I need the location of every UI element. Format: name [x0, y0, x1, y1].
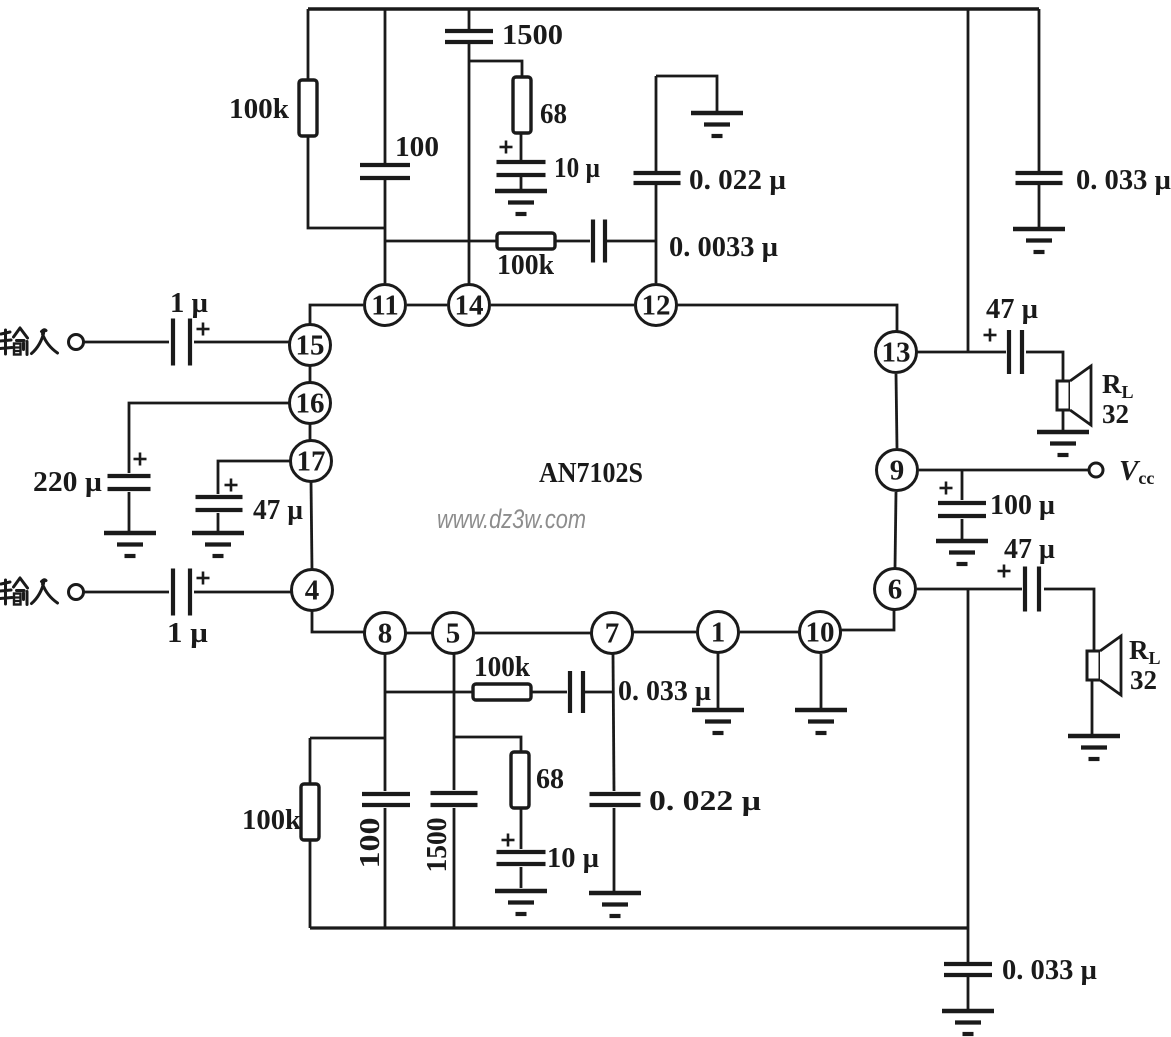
wire output rail down right	[967, 9, 970, 352]
svg-text:100k: 100k	[229, 93, 290, 125]
pin 7	[592, 613, 633, 654]
pin 5	[433, 613, 474, 654]
plus 100u	[940, 482, 953, 495]
plus 10u top	[500, 141, 513, 154]
svg-text:0. 033 µ: 0. 033 µ	[1002, 954, 1097, 986]
label 47u output2	[1004, 533, 1055, 565]
svg-text:AN7102S: AN7102S	[539, 457, 643, 489]
wire 47u cap to speaker1	[1026, 352, 1063, 381]
svg-text:100: 100	[395, 131, 439, 163]
capacitor 10u top electrolytic	[497, 162, 546, 175]
plus 1u input2	[197, 572, 210, 585]
label 68 bottom	[536, 763, 564, 795]
ground 10u top	[495, 191, 547, 214]
svg-text:14: 14	[455, 290, 484, 322]
pin 6	[875, 569, 916, 610]
wire pin5-pin7	[473, 632, 591, 635]
wire left feedback branch	[307, 9, 310, 80]
capacitor 47u left electrolytic	[196, 497, 243, 510]
label 47u left	[253, 494, 303, 526]
wire pin13 to 47u cap	[917, 351, 1006, 354]
label 100 bottom	[354, 818, 386, 869]
label 0.033u top-right	[1076, 164, 1171, 196]
label Vcc	[1119, 455, 1154, 488]
wire speaker2 to ground	[1091, 679, 1094, 734]
wire cap to pin4	[194, 591, 291, 594]
svg-text:10 µ: 10 µ	[554, 152, 600, 184]
wire y737 to 68 resistor	[454, 737, 521, 752]
svg-text:1500: 1500	[502, 19, 563, 51]
resistor 68 bottom	[511, 752, 529, 808]
input terminal 1	[69, 335, 84, 350]
resistor 100k feedback mid	[473, 684, 531, 700]
speaker RL 32 lower	[1087, 636, 1121, 695]
svg-text:10: 10	[806, 617, 835, 649]
capacitor 0.033u bottom	[944, 964, 992, 975]
capacitor 10u bottom electrolytic	[497, 852, 546, 864]
capacitor 0.022u top	[634, 173, 681, 183]
wire right rail lower	[967, 589, 970, 962]
wire 100-cap branch upper	[384, 9, 387, 163]
wire pin7 down	[613, 654, 614, 791]
resistor 100k feedback top	[497, 233, 555, 249]
wire pin8 down upper	[384, 653, 387, 791]
pin 9	[877, 450, 918, 491]
capacitor 100u electrolytic	[938, 503, 986, 516]
wire 100u branch	[961, 470, 964, 500]
label 100k top-left	[229, 93, 290, 125]
svg-text:220 µ: 220 µ	[33, 466, 102, 498]
label RL upper	[1102, 369, 1134, 429]
wire feedback row y241	[385, 240, 590, 243]
svg-text:11: 11	[371, 290, 398, 322]
speaker RL 32 upper	[1057, 366, 1091, 425]
pin 17	[291, 441, 332, 482]
svg-text:16: 16	[296, 388, 325, 420]
wire y692 row b	[531, 691, 567, 694]
svg-text:100k: 100k	[242, 804, 302, 836]
wire pin9-pin6	[895, 492, 896, 568]
svg-text:15: 15	[296, 330, 325, 362]
wire 100u to ground	[961, 519, 964, 539]
svg-text:1 µ: 1 µ	[167, 617, 208, 649]
ground 10u bottom	[495, 891, 547, 914]
capacitor 0.022u bottom	[590, 794, 641, 805]
label 68 top	[540, 98, 567, 130]
wire pin17-pin4	[311, 481, 312, 570]
capacitor 0.0033u	[593, 220, 605, 263]
wire 0.0033 cap to node 12 column	[607, 240, 656, 243]
label 0.022u top	[689, 164, 786, 196]
wire pin1 ground stem	[717, 653, 720, 708]
wire speaker1 to ground	[1062, 409, 1065, 430]
svg-text:4: 4	[305, 575, 320, 607]
label 1500 bottom	[421, 818, 453, 873]
svg-text:0. 033 µ: 0. 033 µ	[618, 675, 711, 707]
wire left 100k branch upper	[309, 738, 312, 784]
wire pin7-pin1	[633, 631, 696, 634]
pin 12	[636, 285, 677, 326]
wire 0.033b to ground	[967, 977, 970, 1009]
wire left 100k branch lower	[309, 840, 312, 928]
svg-text:0. 022 µ: 0. 022 µ	[689, 164, 786, 196]
ground pin10	[795, 710, 847, 733]
Vcc terminal	[1089, 463, 1103, 477]
plus 10u bottom	[502, 834, 515, 847]
svg-text:68: 68	[540, 98, 567, 130]
wire pin15 to pin11	[310, 305, 363, 326]
pin 1	[698, 612, 739, 653]
ground 220u	[104, 533, 156, 556]
capacitor 1500 top	[445, 31, 493, 42]
pin 15	[290, 325, 331, 366]
wire 47u to ground	[217, 513, 220, 531]
plus 1u input1	[197, 323, 210, 336]
wire 68 to 10u cap	[520, 133, 523, 160]
wire pin5 down upper	[453, 653, 456, 790]
resistor 68 top	[513, 77, 531, 133]
svg-text:1 µ: 1 µ	[170, 287, 208, 319]
wire pin11 to pin14	[407, 304, 447, 307]
wire pin16-pin17	[309, 423, 312, 441]
resistor 100k bottom-left	[301, 784, 319, 840]
resistor 100k top-left	[299, 80, 317, 136]
ground top middle	[691, 113, 743, 136]
ground 0.033 top-right	[1013, 229, 1065, 252]
svg-text:68: 68	[536, 763, 564, 795]
plus 47u output2	[998, 565, 1011, 578]
wire pin8-pin5	[405, 632, 433, 635]
wire 0.033 top right branch	[1038, 9, 1041, 171]
pin 14	[449, 285, 490, 326]
wire pin4 to pin8	[312, 610, 364, 632]
svg-text:7: 7	[605, 618, 620, 650]
svg-text:10 µ: 10 µ	[547, 842, 599, 874]
svg-text:100k: 100k	[474, 651, 531, 683]
ground 0.022 bottom	[589, 893, 641, 916]
svg-text:100: 100	[354, 818, 386, 869]
pin 10	[800, 612, 841, 653]
svg-text:12: 12	[642, 290, 671, 322]
label 100k feedback mid	[474, 651, 531, 683]
pin 4	[292, 570, 333, 611]
plus 47u output1	[984, 329, 997, 342]
wire 10u to ground b	[520, 867, 523, 888]
wire pin17 to 47u	[218, 461, 291, 494]
svg-text:47 µ: 47 µ	[253, 494, 303, 526]
capacitor 1u input2	[173, 569, 190, 616]
label 0.033u bottom	[1002, 954, 1097, 986]
pin 8	[365, 613, 406, 654]
svg-text:6: 6	[888, 574, 903, 606]
input label 2	[0, 578, 58, 605]
capacitor 47u output1	[1009, 330, 1022, 374]
ground 47u left	[192, 533, 244, 556]
svg-text:32: 32	[1102, 399, 1129, 429]
label 100 top	[395, 131, 439, 163]
wire pin8 down lower	[384, 808, 387, 928]
ground 0.033 bottom	[942, 1011, 994, 1034]
svg-text:47 µ: 47 µ	[1004, 533, 1055, 565]
label 220u	[33, 466, 102, 498]
label 10u top	[554, 152, 600, 184]
ground pin1	[692, 710, 744, 733]
label 1u input1	[170, 287, 208, 319]
wire y692 row a	[385, 691, 473, 694]
label 100u	[990, 489, 1055, 521]
pin 13	[876, 332, 917, 373]
wire 0.022b to ground	[613, 808, 616, 891]
wire pin16 to 220u	[129, 403, 289, 473]
svg-text:32: 32	[1130, 665, 1157, 695]
pin 11	[365, 285, 406, 326]
wire 10u cap to ground stem	[520, 177, 523, 190]
capacitor 0.033u mid	[570, 671, 583, 713]
wire input1 terminal to cap	[84, 341, 169, 344]
svg-text:1: 1	[711, 617, 726, 649]
svg-text:8: 8	[378, 618, 393, 650]
label 0.022u bottom	[649, 785, 761, 817]
ground speaker1	[1037, 432, 1089, 455]
plus 220u	[134, 453, 147, 466]
capacitor 220u electrolytic	[108, 476, 151, 489]
wire 1500-cap to pin 14	[468, 44, 471, 284]
capacitor 0.033u top-right	[1016, 173, 1063, 183]
wire y738 row	[310, 737, 385, 740]
wire pin15-pin16	[309, 365, 312, 383]
svg-text:47 µ: 47 µ	[986, 293, 1038, 325]
svg-text:13: 13	[882, 337, 911, 369]
watermark	[437, 504, 586, 534]
label 0.033u mid	[618, 675, 711, 707]
wire 68b to 10u	[520, 808, 523, 849]
wire 0.033 top right to ground	[1038, 185, 1041, 227]
wire pin10 ground stem	[820, 654, 823, 708]
ground speaker2	[1068, 736, 1120, 759]
label 1500 top	[502, 19, 563, 51]
wire 12 column mid	[655, 185, 658, 283]
wire y692 row c	[585, 691, 613, 694]
svg-text:17: 17	[297, 446, 326, 478]
wire cap to pin15	[194, 341, 290, 344]
label 100k feedback top	[497, 249, 555, 281]
wire top rail	[308, 7, 1039, 10]
input label 1	[0, 328, 58, 355]
label 10u bottom	[547, 842, 599, 874]
wire pin6 to 47u cap	[917, 588, 1022, 591]
svg-text:9: 9	[890, 455, 905, 487]
wire 12 column upper to ground corner	[655, 76, 658, 171]
label 47u output1	[986, 293, 1038, 325]
wire 220u to ground	[128, 492, 131, 531]
wire branch to 68 resistor	[469, 61, 522, 77]
label 0.0033u	[669, 231, 778, 263]
capacitor 100 top	[360, 165, 410, 178]
svg-text:100 µ: 100 µ	[990, 489, 1055, 521]
label 100k bottom-left	[242, 804, 302, 836]
wire 47u cap to speaker2	[1044, 589, 1094, 651]
capacitor 47u output2	[1025, 567, 1039, 612]
capacitor 1u input1	[173, 319, 190, 366]
svg-text:1500: 1500	[421, 818, 453, 873]
ground 100u	[936, 541, 988, 564]
plus 47u left	[225, 479, 238, 492]
wire pin5 down lower	[453, 808, 456, 928]
IC name AN7102S	[539, 457, 643, 489]
svg-text:100k: 100k	[497, 249, 555, 281]
capacitor 100 bottom	[362, 794, 410, 805]
wire 100k top-left bottom lead	[308, 136, 385, 228]
svg-text:0. 022 µ: 0. 022 µ	[649, 785, 761, 817]
wire pin9 to Vcc	[919, 469, 1089, 472]
svg-text:www.dz3w.com: www.dz3w.com	[437, 504, 586, 534]
capacitor 1500 bottom	[431, 793, 478, 805]
wire pin10-pin6	[841, 610, 894, 630]
label RL lower	[1129, 635, 1161, 695]
wire pin13-pin9	[896, 374, 897, 448]
pin 16	[290, 383, 331, 424]
wire pin12 to pin13	[677, 305, 897, 331]
wire bottom rail	[310, 926, 968, 929]
label 1u input2	[167, 617, 208, 649]
svg-text:0. 0033 µ: 0. 0033 µ	[669, 231, 778, 263]
wire ground L corner	[656, 76, 717, 111]
input terminal 2	[69, 585, 84, 600]
wire pin14 to pin12	[491, 304, 634, 307]
svg-text:5: 5	[446, 618, 461, 650]
wire 1500-cap branch upper	[468, 9, 471, 29]
svg-text:0. 033 µ: 0. 033 µ	[1076, 164, 1171, 196]
wire input2 terminal to cap	[84, 591, 169, 594]
wire 100-cap branch lower to pin 11	[384, 180, 387, 283]
wire pin1-pin10	[740, 631, 799, 634]
